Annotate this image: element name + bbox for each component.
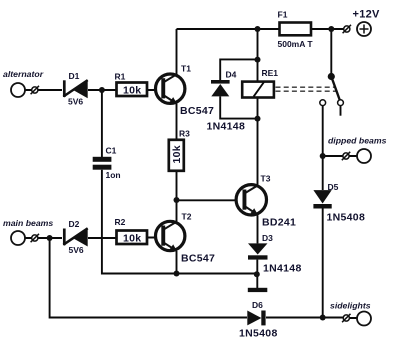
wire bottom rail C1 to D3 node: [102, 170, 257, 274]
resistor R3 10k (vertical): [169, 129, 190, 171]
zener diode D2 5V6: [63, 219, 87, 255]
wire relay to T3 collector: [257, 98, 259, 185]
wire switch right contact stub: [340, 106, 342, 116]
resistor R1 10k: [115, 72, 148, 97]
node junction D3 ground: [254, 271, 260, 277]
wire +12V drop to switch pivot: [330, 29, 332, 76]
transistor T3 BD241: [236, 174, 296, 229]
terminal alternator: [3, 69, 44, 97]
transistor T1 BC547: [156, 64, 215, 118]
svg-text:T3: T3: [261, 174, 271, 184]
svg-text:R3: R3: [179, 129, 190, 139]
svg-text:R2: R2: [115, 217, 126, 227]
svg-text:T1: T1: [181, 64, 191, 74]
svg-text:F1: F1: [278, 10, 288, 20]
wire D4 top branch: [220, 59, 257, 80]
relay switch contact: [320, 73, 344, 106]
node junction D1-R1-C1: [99, 87, 105, 93]
svg-text:D3: D3: [262, 233, 273, 243]
svg-text:500mA T: 500mA T: [278, 39, 314, 49]
wire D4 bottom branch: [220, 96, 257, 118]
node junction dipped beams: [320, 153, 326, 159]
wire top rail right segment: [311, 28, 344, 30]
wire sidelights rail right of D6: [266, 317, 357, 320]
svg-text:RE1: RE1: [262, 68, 279, 78]
svg-text:1N4148: 1N4148: [207, 121, 246, 133]
svg-text:5V6: 5V6: [69, 245, 84, 255]
ground bar: [248, 288, 267, 292]
relay coil RE1: [242, 68, 278, 98]
svg-text:1N5408: 1N5408: [327, 212, 366, 224]
svg-text:alternator: alternator: [3, 69, 44, 79]
svg-text:BC547: BC547: [180, 105, 214, 117]
node junction top rail +12V drop: [328, 26, 334, 32]
diode D5 1N5408 (cathode down): [313, 182, 365, 224]
wire C1 top branch: [101, 90, 103, 157]
svg-text:1N5408: 1N5408: [239, 328, 278, 340]
node junction D4 bottom: [255, 116, 261, 122]
terminal +12V: [343, 9, 380, 37]
wire alternator row: [25, 89, 161, 91]
svg-text:D1: D1: [69, 71, 80, 81]
svg-text:main beams: main beams: [3, 218, 53, 228]
wire center vertical +12 rail to relay: [257, 29, 259, 82]
svg-text:+12V: +12V: [353, 9, 381, 21]
svg-text:10k: 10k: [171, 145, 183, 163]
wire T1 emitter to R3: [176, 104, 178, 140]
capacitor C1 10n: [93, 146, 121, 181]
svg-text:10k: 10k: [123, 85, 141, 97]
svg-text:R1: R1: [115, 72, 126, 82]
terminal dipped beams: [328, 136, 387, 164]
wire main beams down to sidelights rail: [50, 238, 247, 318]
relay linkage dashed lines: [276, 86, 337, 88]
wire T2 emitter down: [176, 251, 178, 274]
svg-text:dipped beams: dipped beams: [328, 136, 387, 146]
svg-text:1on: 1on: [106, 170, 121, 180]
wire main beams row: [25, 237, 161, 240]
svg-text:T2: T2: [182, 212, 192, 222]
wire R3 bottom to node: [176, 171, 178, 200]
node junction D4 top: [255, 57, 261, 63]
svg-text:5V6: 5V6: [68, 97, 83, 107]
wire T1 collector up: [176, 29, 178, 75]
svg-text:BD241: BD241: [262, 217, 296, 229]
diode D3 1N4148 (cathode down): [248, 233, 302, 275]
terminal main beams: [3, 218, 53, 245]
svg-text:D5: D5: [328, 182, 339, 192]
node junction main beams: [47, 235, 53, 241]
svg-text:sidelights: sidelights: [330, 301, 371, 311]
node junction T2 emitter rail: [174, 271, 180, 277]
svg-text:D2: D2: [69, 219, 80, 229]
wire top rail left segment: [177, 28, 280, 30]
node junction top rail relay branch: [255, 26, 261, 32]
terminal sidelights: [330, 301, 371, 326]
fuse F1 500mA T: [278, 10, 314, 50]
wire D3 to ground: [256, 260, 258, 288]
resistor R2 10k: [115, 217, 148, 245]
diode D6 1N5408 (cathode right): [239, 300, 278, 340]
wire dipped node to D5: [322, 156, 324, 190]
svg-text:BC547: BC547: [181, 253, 215, 265]
wire node to T2 collector: [176, 200, 178, 222]
node junction R3-T3 base: [174, 197, 180, 203]
wire switch left contact to dipped node: [322, 106, 324, 156]
svg-text:D6: D6: [252, 300, 263, 310]
wire dipped beams row: [323, 155, 357, 157]
svg-text:10k: 10k: [123, 233, 141, 245]
wire node to T3 base: [177, 199, 243, 201]
node junction sidelights: [320, 315, 326, 321]
svg-text:1N4148: 1N4148: [263, 263, 302, 275]
wire T3 emitter to D3: [257, 215, 259, 243]
diode D4 1N4148 (cathode up): [207, 70, 246, 133]
transistor T2 BC547: [156, 212, 216, 265]
svg-text:D4: D4: [226, 70, 237, 80]
wire D5 to sidelights node: [322, 209, 324, 318]
svg-text:C1: C1: [106, 146, 117, 156]
zener diode D1 5V6: [63, 71, 87, 107]
